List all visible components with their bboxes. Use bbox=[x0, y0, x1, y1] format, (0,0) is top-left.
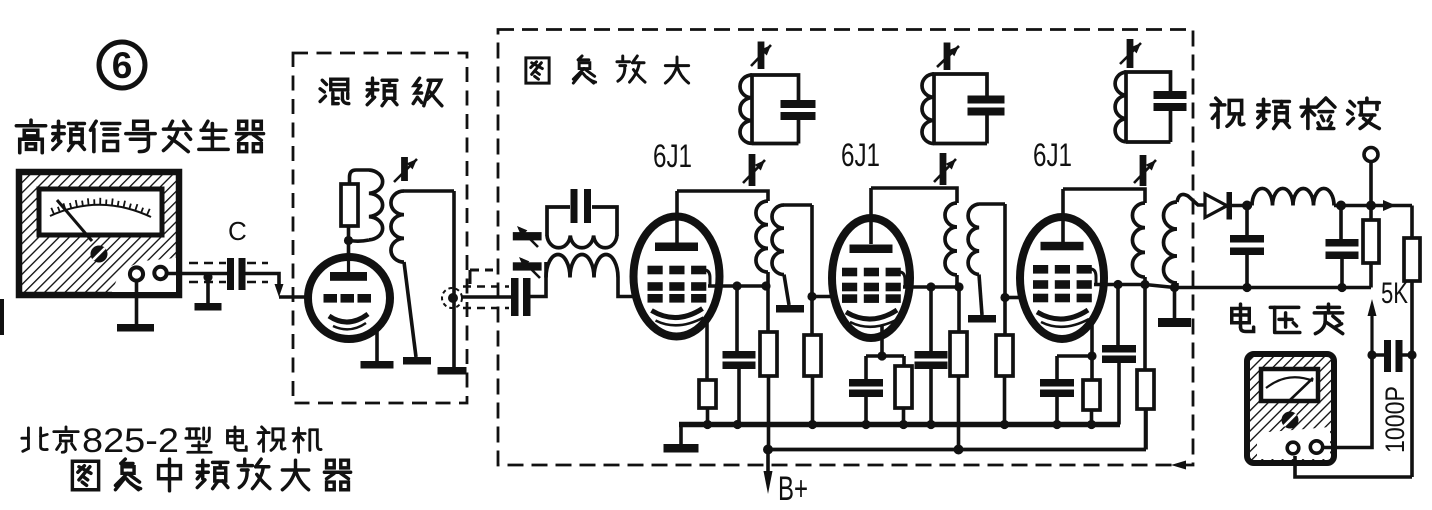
junction T3 bottom screen bbox=[1140, 280, 1149, 289]
junction rail gridres2 bbox=[808, 420, 817, 429]
capacitor C bbox=[227, 258, 246, 290]
wire coil bottom bbox=[350, 240, 369, 241]
junction 1000P right bbox=[1407, 350, 1416, 359]
wire to detector cap 2 bbox=[1339, 206, 1343, 240]
B+ rail bbox=[768, 409, 1146, 450]
wire detector ground stem bbox=[1173, 288, 1177, 319]
ground T2 secondary bbox=[968, 315, 996, 323]
resistor V2 cathode bbox=[895, 366, 912, 408]
mixer stage dashed box bbox=[293, 53, 467, 403]
tube V2 6J1 plate bbox=[850, 245, 893, 254]
wire V2 plate to T2 bbox=[871, 188, 957, 203]
junction mixer plate bbox=[344, 236, 353, 245]
wire T1 secondary to ground bbox=[784, 275, 789, 305]
capacitor screen bypass 3 bbox=[1102, 345, 1136, 363]
wire to mixer tube grid bbox=[279, 295, 308, 299]
junction screen bypass 3 bbox=[1113, 280, 1122, 289]
wire T2 secondary top bbox=[979, 202, 1005, 206]
wire R2 down bbox=[1410, 281, 1414, 477]
voltmeter terminal 2 bbox=[1310, 441, 1322, 453]
resistor video out bbox=[1404, 238, 1420, 281]
wire to resistor R2 bbox=[1410, 206, 1414, 239]
wire 1000P leads bbox=[1372, 353, 1413, 357]
label text "高频信号发生器" bbox=[16, 120, 263, 153]
junction rail cathcap2 bbox=[861, 420, 870, 429]
junction T1 bottom screen bbox=[761, 281, 770, 290]
junction rail cathres2 bbox=[899, 420, 908, 429]
wire V1 plate to T1 bbox=[677, 191, 768, 201]
arrowhead probe bbox=[1368, 299, 1377, 316]
svg-text:B+: B+ bbox=[778, 470, 808, 508]
junction rail cap1 bbox=[733, 420, 742, 429]
resistor V2 grid bbox=[804, 335, 821, 376]
wire cathode res3 to rail bbox=[1090, 410, 1094, 425]
resistor V1 cathode bbox=[699, 380, 716, 408]
wire T3 secondary bottom bbox=[1175, 283, 1179, 288]
wire filter to tube1 grid bbox=[618, 278, 634, 297]
wire V3 screen bbox=[1094, 283, 1145, 287]
svg-text:825-2: 825-2 bbox=[82, 422, 179, 460]
wire mixer cathode bbox=[375, 327, 379, 361]
input filter capacitor bbox=[571, 189, 592, 223]
wire detector cap2 to return bbox=[1340, 259, 1344, 288]
capacitor screen bypass 2 bbox=[915, 351, 948, 369]
input coupling capacitor bbox=[511, 278, 531, 316]
wire cathode cap3 to rail bbox=[1055, 397, 1059, 425]
ground shield bbox=[195, 303, 222, 311]
transformer T1 primary bbox=[756, 201, 768, 272]
resistor screen feed 1 bbox=[760, 332, 777, 376]
input filter primary loop bbox=[547, 207, 617, 236]
generator meter window bbox=[39, 189, 162, 235]
wire to cathode cap 2 bbox=[864, 356, 868, 379]
trimmer arrow mixer coil bbox=[394, 157, 417, 182]
transformer T3 primary bbox=[1132, 203, 1145, 277]
capacitor V3 cathode bbox=[1040, 379, 1074, 397]
wire to screen resistor 3 bbox=[1143, 285, 1147, 371]
wire mixer output to IF input bbox=[461, 295, 514, 299]
ground mixer output bbox=[438, 367, 467, 375]
wire V1 screen bbox=[708, 284, 770, 288]
tank trap 3 loop bbox=[1126, 72, 1171, 142]
transformer T2 secondary bbox=[968, 204, 979, 275]
trimmer arrow T3 primary bbox=[1134, 155, 1156, 186]
shielded junction circle bbox=[442, 288, 462, 308]
wire T3 secondary top to diode bbox=[1177, 194, 1205, 205]
figure number circled 6 bbox=[99, 42, 145, 88]
tube V2 6J1 envelope bbox=[832, 218, 910, 338]
tube V2 6J1 cathode bbox=[846, 310, 897, 319]
wire screen resistor2 to B+ bbox=[957, 376, 961, 450]
tube V1 6J1 envelope bbox=[634, 217, 720, 337]
generator knob bbox=[91, 246, 108, 263]
wire cathode cap2 to rail bbox=[864, 397, 868, 425]
output terminal bbox=[1364, 148, 1378, 162]
wire to cathode cap 3 bbox=[1055, 356, 1059, 379]
junction detector return bbox=[1170, 283, 1179, 292]
junction T2 bottom screen bbox=[954, 282, 963, 291]
wire detector cap1 to return bbox=[1245, 255, 1249, 288]
wire grid resistor2 to rail bbox=[811, 376, 815, 425]
input filter secondary coil bbox=[546, 255, 618, 278]
junction return cap1 bbox=[1242, 283, 1251, 292]
tube V3 6J1 envelope bbox=[1020, 217, 1104, 339]
generator terminal 2 bbox=[154, 267, 166, 279]
tank trap 1 loop bbox=[752, 75, 799, 144]
transformer T1 secondary bbox=[772, 205, 784, 275]
trimmer arrow tank3 bbox=[1120, 39, 1141, 68]
tube V3 6J1 grids bbox=[1033, 265, 1092, 302]
capacitor tank1 bbox=[781, 100, 816, 120]
wire diode to filter bbox=[1232, 204, 1252, 208]
svg-text:5K: 5K bbox=[1381, 277, 1408, 310]
ground main bbox=[664, 444, 699, 453]
arrowhead on output wire bbox=[1383, 200, 1396, 211]
mixer tube cathode bbox=[329, 314, 368, 322]
wire to V2 grid bbox=[812, 295, 834, 299]
wire V1 grid link bbox=[705, 270, 711, 286]
capacitor detector 2 bbox=[1326, 239, 1359, 259]
wire cathode res2 to rail bbox=[902, 408, 906, 425]
label text "图象放大" bbox=[526, 56, 689, 83]
mixer tube envelope bbox=[308, 257, 390, 339]
junction detector 1 bbox=[1242, 201, 1252, 211]
stray wire stub bbox=[470, 270, 493, 284]
junction return cap2 bbox=[1337, 283, 1346, 292]
wire inductor to load bbox=[1334, 204, 1412, 208]
generator terminal area bbox=[112, 258, 176, 292]
tube V3 6J1 plate bbox=[1041, 242, 1084, 251]
junction detector output bbox=[1366, 201, 1376, 211]
ground T1 secondary bbox=[776, 305, 804, 313]
wire T2 primary bottom bbox=[955, 275, 959, 287]
resistor screen feed 2 bbox=[950, 332, 967, 376]
peaking inductor bbox=[1252, 188, 1334, 205]
wire to screen resistor 1 bbox=[766, 286, 770, 332]
wire to detector cap 1 bbox=[1245, 206, 1249, 236]
svg-text:6J1: 6J1 bbox=[653, 138, 692, 174]
arrowhead into mixer bbox=[275, 284, 284, 297]
wire voltmeter probe up bbox=[1323, 355, 1372, 448]
wire B+ drop bbox=[766, 450, 770, 474]
generator meter scale ticks bbox=[51, 198, 149, 215]
wire junction to tube bbox=[347, 226, 351, 258]
trimmer arrow tank1 bbox=[751, 42, 771, 70]
voltmeter arc bbox=[1266, 377, 1313, 388]
wire V3 cathode spread bbox=[1057, 354, 1092, 358]
wire V2 grid link bbox=[900, 272, 906, 287]
wire grid resistor3 to rail bbox=[1003, 376, 1007, 425]
wire T2 to V3 grid riser bbox=[1003, 204, 1007, 298]
svg-text:6: 6 bbox=[112, 45, 133, 86]
ground detector bbox=[1158, 318, 1191, 327]
wire input cap to filter bbox=[530, 262, 546, 297]
wire C to mixer grid bbox=[246, 274, 280, 291]
wire V1 cathode resistor to rail bbox=[706, 408, 710, 425]
junction V3 cathode bbox=[1087, 351, 1096, 360]
wire V3 plate lead bbox=[1061, 189, 1065, 244]
generator meter scale arc bbox=[50, 205, 151, 217]
junction rail cathres3 bbox=[1087, 420, 1096, 429]
ground mixer secondary bbox=[403, 357, 431, 365]
junction 1000P left bbox=[1367, 350, 1376, 359]
tank trap 3 coil bbox=[1115, 72, 1126, 142]
ground mixer cathode bbox=[361, 361, 394, 369]
trimmer arrow input filter 1 bbox=[513, 226, 542, 247]
wire T2 secondary to ground bbox=[979, 275, 982, 316]
capacitor detector 1 bbox=[1230, 235, 1264, 255]
shield dashes at C bbox=[189, 263, 268, 282]
wire to cathode resistor 2 bbox=[902, 356, 906, 366]
wire screen resistor3 to B+ bbox=[1144, 409, 1148, 450]
wire V2 screen bbox=[903, 285, 961, 289]
wire V2 cathode spread bbox=[866, 354, 904, 358]
wire T3 primary bottom bbox=[1143, 277, 1147, 285]
mixer tube plate bbox=[347, 252, 350, 272]
junction rail gridres3 bbox=[1000, 420, 1009, 429]
transformer T3 secondary detector coil bbox=[1164, 202, 1178, 283]
wire shield to ground bbox=[206, 277, 210, 303]
svg-text:C: C bbox=[228, 216, 247, 246]
wire to grid resistor 3 bbox=[1003, 298, 1007, 336]
generator terminal 1 bbox=[130, 267, 143, 280]
tube V1 6J1 plate bbox=[655, 243, 698, 252]
label text "型电视机" bbox=[186, 427, 321, 452]
label text "北京" bbox=[22, 427, 78, 452]
trimmer arrow T2 primary bbox=[934, 153, 956, 185]
shield dashes mixer output bbox=[463, 287, 509, 309]
wire to screen resistor 2 bbox=[957, 287, 961, 332]
wire V2 plate lead bbox=[869, 188, 873, 244]
ground rail bbox=[679, 422, 1120, 428]
label text "图象中频放大器" bbox=[72, 459, 350, 491]
capacitor tank3 bbox=[1154, 91, 1187, 111]
resistor screen feed 3 bbox=[1137, 370, 1154, 409]
tube V1 6J1 cathode bbox=[652, 309, 703, 318]
capacitor 1000P bbox=[1384, 340, 1403, 372]
junction screen bypass 1 bbox=[732, 281, 741, 290]
probe arrow line bbox=[1370, 314, 1373, 355]
mixer oscillator coil primary bbox=[369, 170, 383, 240]
svg-text:6J1: 6J1 bbox=[841, 137, 880, 173]
wire to screen cap 3 bbox=[1116, 285, 1120, 346]
wire secondary to ground bbox=[404, 262, 416, 357]
resistor mixer plate load bbox=[341, 184, 358, 226]
wire to cathode resistor 3 bbox=[1090, 356, 1094, 380]
resistor V3 grid bbox=[996, 335, 1013, 376]
wire V3 cathode bbox=[1090, 322, 1094, 356]
capacitor screen bypass 1 bbox=[723, 351, 756, 369]
wire terminal1 to ground bbox=[135, 281, 139, 324]
tube V1 6J1 grids bbox=[648, 266, 707, 303]
junction B+ 1 bbox=[763, 445, 773, 455]
wire load resistor to return bbox=[1369, 263, 1373, 288]
junction V2 grid bbox=[807, 292, 816, 301]
junction shield ground bbox=[203, 272, 212, 281]
junction rail cathode1 bbox=[703, 420, 712, 429]
resistor load 5K bbox=[1363, 220, 1379, 263]
voltmeter terminal area bbox=[1257, 427, 1330, 459]
wire screen cap3 to rail end bbox=[1117, 363, 1121, 425]
junction rail cap2 bbox=[926, 420, 935, 429]
tank trap 1 coil bbox=[740, 75, 752, 143]
IF amplifier dashed box bbox=[498, 30, 1193, 466]
junction screen bypass 2 bbox=[926, 282, 935, 291]
wire secondary top bbox=[404, 189, 454, 193]
capacitor tank2 bbox=[968, 96, 1005, 116]
wire to V3 grid bbox=[1005, 296, 1021, 300]
wire to grid resistor 2 bbox=[810, 297, 814, 336]
voltmeter case bbox=[1247, 354, 1334, 463]
transformer T2 primary bbox=[945, 203, 957, 275]
voltmeter knob bbox=[1282, 412, 1299, 429]
junction rail cathcap3 bbox=[1052, 420, 1061, 429]
tank trap 2 coil bbox=[922, 74, 934, 144]
wire screen resistor1 to B+ bbox=[767, 376, 771, 450]
ground below generator bbox=[117, 324, 154, 332]
wire screen cap1 to rail bbox=[737, 369, 741, 425]
wire T1 primary bottom bbox=[766, 272, 770, 286]
voltmeter terminal 1 bbox=[1287, 442, 1299, 454]
wire V3 plate to T3 bbox=[1063, 189, 1145, 203]
mixer tube grid bbox=[324, 294, 372, 303]
mixer output coil secondary bbox=[391, 191, 404, 262]
trimmer arrow tank2 bbox=[937, 43, 959, 71]
svg-text:6J1: 6J1 bbox=[1033, 137, 1072, 173]
wire V2 cathode bbox=[880, 326, 884, 356]
junction B+ 2 bbox=[954, 445, 964, 455]
wire resistor top to coil bbox=[350, 170, 370, 184]
svg-text:1000P: 1000P bbox=[1380, 386, 1410, 453]
voltmeter needle bbox=[1290, 378, 1313, 400]
wire ground rail stub bbox=[679, 425, 683, 446]
tube V2 6J1 grids bbox=[842, 268, 901, 303]
wire T1 secondary top bbox=[784, 203, 812, 207]
scan artifact bbox=[0, 299, 4, 335]
arrowhead on box bottom edge bbox=[1171, 461, 1186, 470]
label text "电压表" bbox=[1232, 304, 1343, 334]
label text "视频检波" bbox=[1211, 98, 1379, 128]
diode detector bbox=[1205, 192, 1232, 220]
junction detector 2 bbox=[1336, 201, 1346, 211]
label text "混频级" bbox=[320, 78, 442, 106]
wire detector return rail bbox=[1145, 285, 1371, 288]
wire voltmeter return bbox=[1295, 456, 1412, 477]
capacitor V2 cathode bbox=[849, 379, 883, 397]
junction V2 cathode bbox=[877, 351, 886, 360]
voltmeter window bbox=[1261, 369, 1318, 401]
wire mixer output riser bbox=[452, 191, 456, 367]
arrowhead B+ bbox=[764, 471, 773, 494]
wire V1 plate lead bbox=[675, 191, 679, 243]
generator meter needle bbox=[57, 200, 92, 241]
trimmer arrow T1 primary bbox=[743, 154, 765, 186]
wire V3 grid link bbox=[1091, 269, 1097, 285]
wire to load resistor bbox=[1369, 206, 1373, 221]
tube V3 6J1 cathode bbox=[1037, 310, 1088, 319]
resistor V3 cathode bbox=[1083, 380, 1100, 410]
tank trap 2 loop bbox=[934, 74, 987, 144]
wire V1 cathode bbox=[705, 322, 709, 380]
wire to output terminal bbox=[1369, 162, 1373, 206]
trimmer arrow input filter 2 bbox=[513, 257, 542, 278]
wire screen cap2 to rail bbox=[929, 369, 933, 425]
wire to screen cap 1 bbox=[735, 286, 739, 351]
junction V3 grid bbox=[1000, 293, 1009, 302]
junction mixer output bbox=[448, 293, 458, 303]
wire generator output bbox=[167, 272, 227, 276]
wire T1 to V2 grid riser bbox=[810, 205, 814, 297]
RF signal generator case bbox=[19, 172, 179, 295]
wire to screen cap 2 bbox=[929, 287, 933, 351]
